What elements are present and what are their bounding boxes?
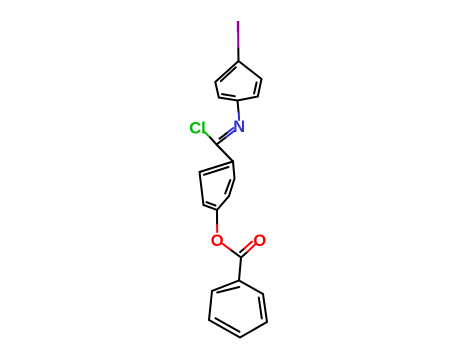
ring C inner aromatic line on edge VC6VC1 (217, 287, 239, 293)
double bond C2=O line b (red half) (244, 242, 252, 249)
double bond C2=O line a (black half) (241, 252, 248, 258)
svg-text:Cl: Cl (189, 120, 206, 138)
double bond C1=N line b (blue half) (228, 128, 233, 132)
double bond C2=O line b (black half) (240, 249, 244, 253)
ring A inner aromatic line on edge V6V1 (221, 67, 236, 81)
ring C benzene outline (209, 281, 267, 338)
bond ring B to ester O (red half) (216, 225, 218, 232)
double bond C2=O line a (red half) (248, 245, 255, 252)
bond I to ring A (purple half) (237, 33, 239, 49)
bond ester O to carbonyl C (black half) (232, 250, 242, 257)
ring B inner aromatic line on edge VB2VB3 (225, 180, 230, 194)
ring B inner aromatic line on edge VB6VB1 (204, 167, 229, 175)
bond I to ring A (black half) (237, 49, 239, 62)
bond Cl to C1 (green half) (205, 132, 211, 137)
svg-text:N: N (233, 118, 245, 136)
bond ring A to N (black half) (238, 101, 239, 113)
bond ring A to N (blue half) (238, 113, 240, 120)
ring C inner aromatic line on edge VC2VC3 (259, 298, 262, 319)
bond ester O to carbonyl C (red half) (223, 244, 232, 250)
double bond C1=N line a (blue half) (226, 131, 235, 138)
ring A inner aromatic line on edge V2V3 (254, 83, 257, 94)
bond C1 to ring B (217, 145, 234, 162)
ring A inner aromatic line on edge V4V5 (222, 94, 235, 96)
double bond C1=N line a (black half) (217, 137, 227, 144)
ring B inner aromatic line on edge VB4VB5 (207, 202, 216, 205)
bond carbonyl C to ring C (239, 258, 241, 281)
svg-text:O: O (253, 232, 266, 250)
bond Cl to C1 (black half) (210, 137, 217, 144)
ring C inner aromatic line on edge VC4VC5 (216, 318, 240, 332)
ring A benzene outline (215, 61, 261, 101)
svg-text:O: O (211, 232, 224, 250)
bond ring B to ester O (black half) (216, 210, 218, 225)
double bond C1=N line b (black half) (220, 132, 228, 139)
ring B benzene outline (200, 162, 235, 211)
